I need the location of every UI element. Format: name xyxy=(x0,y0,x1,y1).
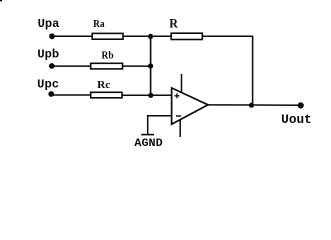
resistor Ra xyxy=(92,33,123,39)
node Upc terminal xyxy=(48,91,54,97)
svg-text:Rc: Rc xyxy=(97,79,110,91)
wire output xyxy=(208,104,301,106)
svg-text:Upc: Upc xyxy=(37,78,59,92)
wire summing bus vertical xyxy=(150,36,152,95)
svg-text:Ra: Ra xyxy=(93,18,105,30)
wire Upa to Ra xyxy=(52,35,93,37)
junction dot node C xyxy=(148,93,153,98)
svg-text:Upb: Upb xyxy=(37,47,59,61)
op-amp minus sign xyxy=(176,115,181,117)
power pin top xyxy=(181,74,183,92)
resistor Rb xyxy=(91,63,123,69)
svg-text:Upa: Upa xyxy=(38,17,60,31)
wire Upb to Rb xyxy=(52,65,92,67)
junction dot node A xyxy=(148,34,153,39)
op-amp plus sign xyxy=(174,95,179,97)
svg-text:Uout: Uout xyxy=(281,112,312,127)
resistor Rc xyxy=(91,92,122,98)
svg-text:R: R xyxy=(169,15,178,30)
wire Upc to Rc xyxy=(51,94,91,96)
scan corner artifact xyxy=(0,0,2,1)
resistor R xyxy=(171,33,202,39)
junction dot node B xyxy=(148,63,153,68)
wire R to feedback corner and down to output xyxy=(202,36,252,105)
wire inverting input down to ground xyxy=(148,116,172,135)
ground AGND bar xyxy=(141,134,154,136)
svg-text:Rb: Rb xyxy=(102,50,114,62)
wire Rb to node xyxy=(123,65,152,67)
wire Rc to op-amp + input xyxy=(122,94,172,96)
op-amp U1 triangle xyxy=(172,88,208,124)
junction dot output/feedback xyxy=(249,103,254,108)
power pin bottom xyxy=(179,119,181,137)
svg-text:AGND: AGND xyxy=(134,138,163,150)
node Upb terminal xyxy=(49,63,55,69)
node Uout terminal xyxy=(298,102,304,108)
wire Ra to R (through node) xyxy=(123,35,172,37)
node Upa terminal xyxy=(49,33,55,39)
